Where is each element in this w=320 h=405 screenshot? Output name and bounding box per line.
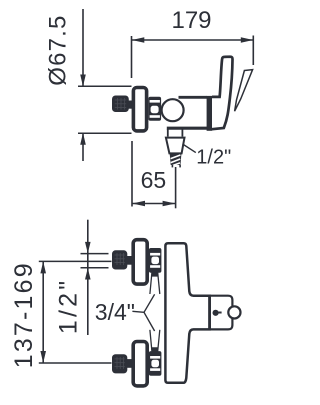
lower union nut	[149, 351, 162, 376]
arrowhead up at bottom extension	[80, 133, 86, 145]
dimension line 179	[132, 39, 254, 41]
arrowhead right 179	[241, 37, 254, 42]
dimension line 137-169	[42, 261, 44, 363]
svg-text:179: 179	[171, 7, 211, 34]
arrowhead up 137-169	[40, 261, 46, 273]
union nut (top view)	[148, 97, 161, 121]
hose thread (hatched)	[170, 154, 182, 166]
stem between knurled nut and flange	[127, 101, 133, 109]
leader 3/4: lower branch	[144, 312, 155, 331]
arrowhead left 65	[132, 201, 145, 207]
svg-text:1/2": 1/2"	[54, 278, 82, 334]
pipe line bottom (1/2 dim)	[81, 267, 109, 269]
mixer body (front view)	[165, 243, 209, 382]
pipe line top (1/2 dim)	[81, 253, 109, 255]
extension line bottom of flange	[78, 132, 132, 134]
arrowhead down 1/2	[85, 242, 91, 254]
upper union nut	[149, 248, 162, 273]
upper inlet pipe dark root	[151, 272, 158, 276]
leader 3/4: horizontal	[132, 311, 144, 312]
handle hub bump (front view)	[228, 306, 240, 318]
dimension line 65	[132, 203, 176, 205]
dimension 65: right extension line (hose center)	[175, 167, 177, 208]
extension line left 179	[131, 36, 133, 78]
dimension line Ø67.5 upper segment	[82, 9, 84, 86]
leader line 1/2 inch (top view)	[183, 144, 196, 153]
dimension line Ø67.5 lower segment	[82, 133, 84, 161]
ball joint (top view)	[162, 99, 184, 121]
screw (front view)	[213, 310, 219, 316]
upper wall flange	[133, 240, 147, 284]
hose stub walls	[171, 165, 173, 168]
svg-text:1/2": 1/2"	[196, 147, 231, 169]
arrowhead left 179	[132, 37, 145, 42]
lower inlet pipe walls	[150, 330, 152, 352]
arrowhead down 137-169	[40, 351, 46, 363]
dimension 65: left extension line	[131, 141, 133, 207]
block joint line	[208, 295, 211, 331]
body end joint band	[207, 96, 213, 131]
lower wall flange	[133, 342, 147, 386]
leader 3/4: upper branch	[144, 294, 155, 312]
handle base cap and grip (top view)	[212, 57, 233, 130]
svg-text:Ø67.5: Ø67.5	[45, 14, 72, 85]
extension line top (upper connection center)	[39, 260, 112, 262]
body top edge (top view)	[179, 96, 208, 99]
wall flange (top view)	[133, 88, 146, 131]
lower knurled nut	[112, 354, 127, 373]
upper stem	[127, 256, 132, 265]
cartridge block (front view)	[210, 296, 233, 330]
outlet neck wall left	[167, 129, 169, 137]
lower stem	[127, 359, 132, 368]
knurled nut (wall union, top view)	[112, 96, 129, 113]
outlet neck wall right	[181, 129, 183, 137]
lower inlet pipe dark root	[151, 347, 158, 351]
dimension line 1/2 vertical	[87, 220, 89, 335]
upper knurled nut	[112, 250, 127, 269]
arrowhead right 65	[163, 201, 176, 207]
upper inlet pipe walls	[150, 273, 152, 295]
extension line right 179	[252, 36, 254, 66]
arrowhead up 1/2	[85, 268, 91, 280]
outlet cone	[166, 138, 185, 154]
svg-text:3/4": 3/4"	[95, 299, 135, 325]
arrowhead down at top extension	[80, 75, 86, 87]
svg-text:65: 65	[141, 167, 167, 193]
body bottom edge (top view)	[167, 127, 207, 130]
extension line bottom (lower connection center)	[39, 362, 112, 364]
extension line top of flange	[78, 85, 132, 87]
handle lever blade (top view)	[235, 70, 253, 112]
svg-text:137-169: 137-169	[10, 261, 38, 368]
